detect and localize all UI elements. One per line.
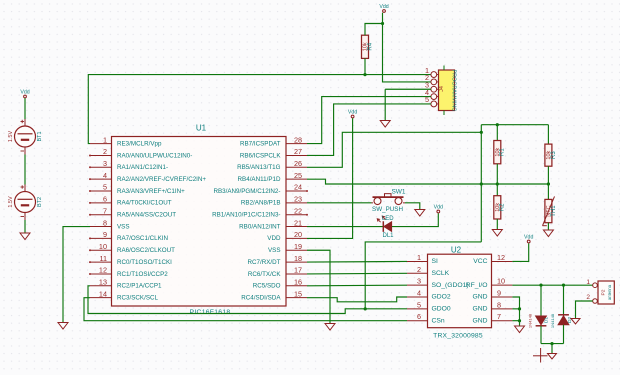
microcontroller U1 PIC16F1618 [112,137,287,307]
svg-text:RB2/AN8/P1B: RB2/AN8/P1B [241,200,281,207]
junction (rail) [550,342,553,345]
svg-text:9: 9 [497,289,501,298]
battery BT2 [8,185,43,221]
svg-text:GND: GND [473,317,488,324]
wire rail to earth [551,344,553,354]
svg-text:3: 3 [417,277,421,286]
pin 23 RB2/AN8/P1B [241,195,307,207]
pin 15 RC4/SDI/SDA [241,289,307,301]
svg-text:RB5/AN13/T1G: RB5/AN13/T1G [237,164,281,171]
svg-text:20: 20 [294,230,302,239]
svg-text:14: 14 [99,289,107,298]
pin 26 RB5/AN13/T1G [237,159,307,171]
pin 25 RB4/AN11/P1D [238,171,307,183]
pin 5 (programming header) [425,95,439,107]
svg-text:Vdd: Vdd [20,89,29,95]
ground (programming header) [380,121,390,128]
svg-text:2: 2 [103,147,107,156]
resistor R1 [494,141,506,164]
pin 6 CSn (U2) [407,312,445,324]
svg-text:RB1/AN10/P1C/C12IN3-: RB1/AN10/P1C/C12IN3- [212,212,280,219]
wire RB6/ICSPCLK to prog pin5 [307,104,431,156]
svg-text:RB7/ICSPDAT: RB7/ICSPDAT [240,140,281,147]
value label TRX_32000985 [433,333,483,340]
power flag VDD (battery stack) [20,89,29,98]
svg-text:10: 10 [497,277,505,286]
svg-text:17: 17 [294,266,302,275]
svg-text:DL1: DL1 [382,233,394,239]
wire R3 bottom [547,166,549,184]
svg-text:7: 7 [497,312,501,321]
svg-text:26: 26 [294,159,302,168]
svg-text:GND: GND [473,306,488,313]
junction (mid rail / vertical) [480,182,483,185]
U1 designator label [196,124,207,133]
svg-text:1.5V: 1.5V [8,196,14,208]
svg-text:24: 24 [294,183,302,192]
wire R1 top [496,125,498,141]
svg-text:SO_(GDO1): SO_(GDO1) [432,282,469,289]
thermistor TH1 [543,196,557,225]
junction (GDO0 feed) [364,307,367,310]
svg-text:VCC: VCC [473,258,487,265]
wire VDD to pin20 [307,118,353,238]
resistor R3 [545,144,557,166]
wire GDO0 route [365,242,481,309]
svg-text:RA7/OSC1/CLKIN: RA7/OSC1/CLKIN [117,235,168,242]
pin 13 RC2/P1A/CCP1 [90,278,162,290]
svg-text:RB0/AN12/INT: RB0/AN12/INT [239,223,281,230]
pin 4 RA2/AN2/VREF-/CVREF/C2IN+ [89,171,206,183]
wire TH1 top [547,184,549,199]
svg-text:RB3/AN9/PGM/C12IN2-: RB3/AN9/PGM/C12IN2- [213,188,280,195]
svg-text:GND: GND [473,294,488,301]
wire VCC to VDD [512,243,528,261]
svg-text:Vdd: Vdd [524,234,533,240]
svg-text:GDO2: GDO2 [432,294,451,301]
svg-text:4: 4 [103,171,107,180]
pin 20 VDD [267,230,307,242]
svg-text:8: 8 [103,218,107,227]
svg-text:RC7/RX/DT: RC7/RX/DT [248,259,281,266]
svg-text:RA6/OSC2/CLKOUT: RA6/OSC2/CLKOUT [117,247,175,254]
pin 24 RB3/AN9/PGM/C12IN2- [213,183,308,195]
wire vertical divider feed [480,125,482,242]
svg-text:1: 1 [417,253,421,262]
wire [24,98,26,119]
wire D1 bottom [540,326,542,344]
svg-text:RA0/AN0/ULPWU/C12IN0-: RA0/AN0/ULPWU/C12IN0- [117,152,192,159]
diode D2 [550,313,573,328]
pin 16 RC5/SDO [253,278,307,290]
svg-text:RA5/AN4/SS/C2OUT: RA5/AN4/SS/C2OUT [117,212,176,219]
svg-text:6: 6 [417,312,421,321]
svg-text:5: 5 [417,300,421,309]
wire diode bottom rail [541,343,564,345]
resistor R2 [494,196,506,219]
svg-text:J4: J4 [439,86,445,92]
junction (GND pin8) [518,307,521,310]
resistor R4 pull-up [362,35,374,58]
wire RB7/ICSPDAT to prog pin4 [307,97,431,144]
wire RF_I/O to antenna [512,284,592,286]
wire RC6 to SCLK [307,272,407,275]
svg-text:2: 2 [417,265,421,274]
wire D2 bottom [563,325,565,344]
wire RB4 mid rail [307,179,548,184]
pin 12 VCC (U2) [473,253,512,265]
svg-text:6: 6 [103,195,107,204]
svg-text:RC4/SDI/SDA: RC4/SDI/SDA [241,294,281,301]
svg-text:SW1: SW1 [391,188,405,195]
wire D1 top [540,285,542,316]
pin 19 VSS [268,242,307,254]
switch SW1 SW_PUSH [372,188,406,213]
svg-text:R3: R3 [551,151,557,159]
svg-text:RB4/AN11/P1D: RB4/AN11/P1D [238,176,281,183]
wire RB5 net [307,132,481,167]
svg-text:U2: U2 [451,245,462,254]
svg-text:RC2/P1A/CCP1: RC2/P1A/CCP1 [117,283,162,290]
svg-text:27: 27 [294,147,302,156]
svg-text:Vdd: Vdd [379,4,388,10]
pin 2 (programming header) [425,73,439,85]
pin 1 (antenna) [586,279,598,288]
svg-text:1N4148: 1N4148 [550,313,555,328]
svg-text:1: 1 [103,135,107,144]
svg-text:VSS: VSS [268,247,281,254]
svg-text:28: 28 [294,135,302,144]
pin 14 RC3/SCK/SCL [90,289,159,301]
svg-text:PIC16F1618: PIC16F1618 [190,309,231,316]
svg-text:RF_I/O: RF_I/O [466,282,488,289]
ground (R2) [492,230,502,237]
wire LED anode to VDD [392,213,438,226]
svg-text:16: 16 [294,278,302,287]
U2 designator label [451,245,462,254]
pin 9 RA7/OSC1/CLKIN [89,230,168,242]
connector P2 antenna [598,281,614,304]
diode D1 [528,313,550,328]
pin 1 RE3/MCLR/Vpp [90,135,162,147]
svg-text:PROGRAMMING: PROGRAMMING [450,70,456,112]
junction (R4 bottom on MCLR) [363,73,366,76]
pin 2 SCLK (U2) [407,265,450,277]
ground (TH1) [543,230,553,237]
wire TH1 bottom [547,223,549,230]
svg-text:RB6/ICSPCLK: RB6/ICSPCLK [240,152,281,159]
wire prog pin3 to ground [385,89,431,120]
pin 4 GDO2 (U2) [407,289,451,301]
junction (GND pin7) [518,319,521,322]
battery BT1 [8,119,43,155]
wire [24,220,26,233]
pin 2 (antenna) [586,294,598,304]
svg-text:CSn: CSn [432,317,445,324]
wire R1 bottom [496,164,498,184]
wire SW1 to ground [405,203,420,210]
pin 6 RA4/T0CKI/C1OUT [89,195,172,207]
svg-text:BT2: BT2 [37,197,43,207]
svg-text:19: 19 [294,242,302,251]
pin 18 RC7/RX/DT [248,254,308,266]
wire D2 top [563,285,565,315]
pin 5 GDO0 (U2) [407,300,451,312]
pin 17 RC6/TX/CK [248,266,307,278]
pin 7 RA5/AN4/SS/C2OUT [89,206,176,218]
wire antenna pin2 to ground [576,301,593,319]
pin 28 RB7/ICSPDAT [240,135,307,147]
svg-text:R4: R4 [367,42,373,50]
svg-text:15: 15 [294,289,302,298]
svg-text:RA2/AN2/VREF-/CVREF/C2IN+: RA2/AN2/VREF-/CVREF/C2IN+ [117,176,206,183]
pin 4 (programming header) [425,88,439,100]
svg-text:11: 11 [99,254,107,263]
pin 1 (programming header) [425,66,439,78]
pin 10 RA6/OSC2/CLKOUT [89,242,175,254]
svg-text:VDD: VDD [267,235,281,242]
svg-text:LED: LED [382,216,394,222]
svg-text:25: 25 [294,171,302,180]
connector P1 programming header [439,66,457,116]
wire U2 GND bus [512,297,519,326]
pin 11 RC0/T1OSO/T1CKI [89,254,172,266]
wire RC4 to GDO2 (with dip) [307,297,407,302]
pin 8 VSS [90,218,130,230]
wire MCLR net [88,75,431,144]
wire R2 top [496,184,498,196]
svg-text:Vdd: Vdd [434,204,443,210]
wire RC5 to SO [307,284,407,287]
pin 3 SO_(GDO1) (U2) [407,277,469,289]
wire RB2 to SW1 [307,202,372,204]
junction (RB5 on vertical) [480,131,483,134]
svg-text:R1: R1 [500,148,506,156]
wire divider top rail [481,124,548,126]
svg-text:7: 7 [103,206,107,215]
ground (VSS pin19) [325,324,335,331]
power flag VDD (U2) [524,234,533,243]
power flag VDD (top) [379,4,388,13]
ground (VSS pin8) [58,323,68,330]
value label PIC16F1618 [190,309,231,316]
power flag VDD (U1 supply) [348,109,357,118]
ground (antenna) [571,319,580,325]
pin 10 RF_I/O (U2) [466,277,513,289]
pin 9 GND (U2) [473,289,513,301]
svg-text:18: 18 [294,254,302,263]
junction (D1 tap) [539,284,542,287]
wire VSS pin8 to ground [63,227,90,323]
pin 27 RB6/ICSPCLK [240,147,307,159]
svg-text:RE3/MCLR/Vpp: RE3/MCLR/Vpp [117,140,162,147]
svg-text:3: 3 [103,159,107,168]
wire RB0 to LED cathode [307,226,383,228]
module U2 TRX_32000985 [428,254,492,328]
svg-text:RA3/AN3/VREF+/C1IN+: RA3/AN3/VREF+/C1IN+ [117,188,185,195]
svg-text:U1: U1 [196,124,207,133]
pin 8 GND (U2) [473,300,513,312]
pin 12 RC1/T1OSI/CCP2 [89,266,168,278]
pin 3 (programming header) [425,80,439,92]
svg-text:D1: D1 [544,317,550,324]
power flag VDD (LED) [434,204,443,213]
svg-text:RA4/T0CKI/C1OUT: RA4/T0CKI/C1OUT [117,200,172,207]
svg-text:1.5V: 1.5V [8,131,14,143]
junction (mid rail / R3-TH1) [547,182,550,185]
svg-text:21: 21 [294,218,302,227]
wire RC3 wrap to CSn [84,298,407,321]
wire VSS pin19 to ground [307,250,330,323]
junction (D2 tap) [562,284,565,287]
junction (mid rail / R1-R2) [496,182,499,185]
pin 22 RB1/AN10/P1C/C12IN3- [212,206,308,218]
junction (R4 top tap) [381,22,384,25]
ground (battery) [20,233,30,240]
junction (R1 top on rail) [496,123,499,126]
svg-text:SI: SI [432,258,439,265]
wire R4 top to VDD rail [365,24,383,36]
svg-text:GDO0: GDO0 [432,306,451,313]
svg-text:1: 1 [586,279,590,286]
svg-text:12: 12 [99,266,107,275]
svg-text:SW_PUSH: SW_PUSH [372,206,403,213]
svg-text:12: 12 [497,253,505,262]
svg-text:RC3/SCK/SCL: RC3/SCK/SCL [117,294,159,301]
svg-text:RC0/T1OSO/T1CKI: RC0/T1OSO/T1CKI [117,259,172,266]
pin 3 RA1/AN1/C12IN1- [89,159,168,171]
ground (SW1) [415,210,425,217]
svg-text:2: 2 [586,294,590,301]
svg-text:R2: R2 [500,203,506,211]
svg-text:Vdd: Vdd [348,109,357,115]
svg-text:RC1/T1OSI/CCP2: RC1/T1OSI/CCP2 [117,271,168,278]
pin 5 RA3/AN3/VREF+/C1IN+ [89,183,185,195]
svg-text:SCLK: SCLK [432,270,450,277]
svg-text:P2: P2 [601,289,607,295]
svg-text:8: 8 [497,300,501,309]
wire RC7 to SI [307,260,407,263]
svg-text:RA1/AN1/C12IN1-: RA1/AN1/C12IN1- [117,164,168,171]
pin 21 RB0/AN12/INT [239,218,307,230]
svg-text:antenna: antenna [607,284,612,300]
svg-text:TRX_32000985: TRX_32000985 [433,333,483,340]
ground (U2) [515,326,525,333]
wire VDD to prog pin2 [383,13,432,82]
svg-text:VSS: VSS [117,223,130,230]
svg-text:RC6/TX/CK: RC6/TX/CK [248,271,281,278]
pin 1 SI (U2) [407,253,438,265]
wire R2 bottom [496,219,498,230]
svg-text:1N4148: 1N4148 [528,313,533,328]
svg-text:5: 5 [103,183,107,192]
svg-text:BT1: BT1 [37,131,43,141]
pin 7 GND (U2) [473,312,513,324]
wire RC2 wrap to GDO0 [88,286,407,314]
svg-text:4: 4 [417,289,421,298]
ground (earth cross) [533,348,548,363]
svg-text:22: 22 [294,206,302,215]
svg-text:9: 9 [103,230,107,239]
svg-text:10: 10 [99,242,107,251]
LED DL1 [377,216,394,239]
svg-text:23: 23 [294,195,302,204]
ground (rail arrow) [548,354,557,360]
wire R3 top [547,125,549,144]
svg-text:RC5/SDO: RC5/SDO [253,283,281,290]
pin 2 RA0/AN0/ULPWU/C12IN0- [89,147,192,159]
wire [24,155,26,185]
svg-text:TH1: TH1 [551,205,557,217]
svg-text:13: 13 [99,278,107,287]
wire R4 bottom [364,58,366,74]
